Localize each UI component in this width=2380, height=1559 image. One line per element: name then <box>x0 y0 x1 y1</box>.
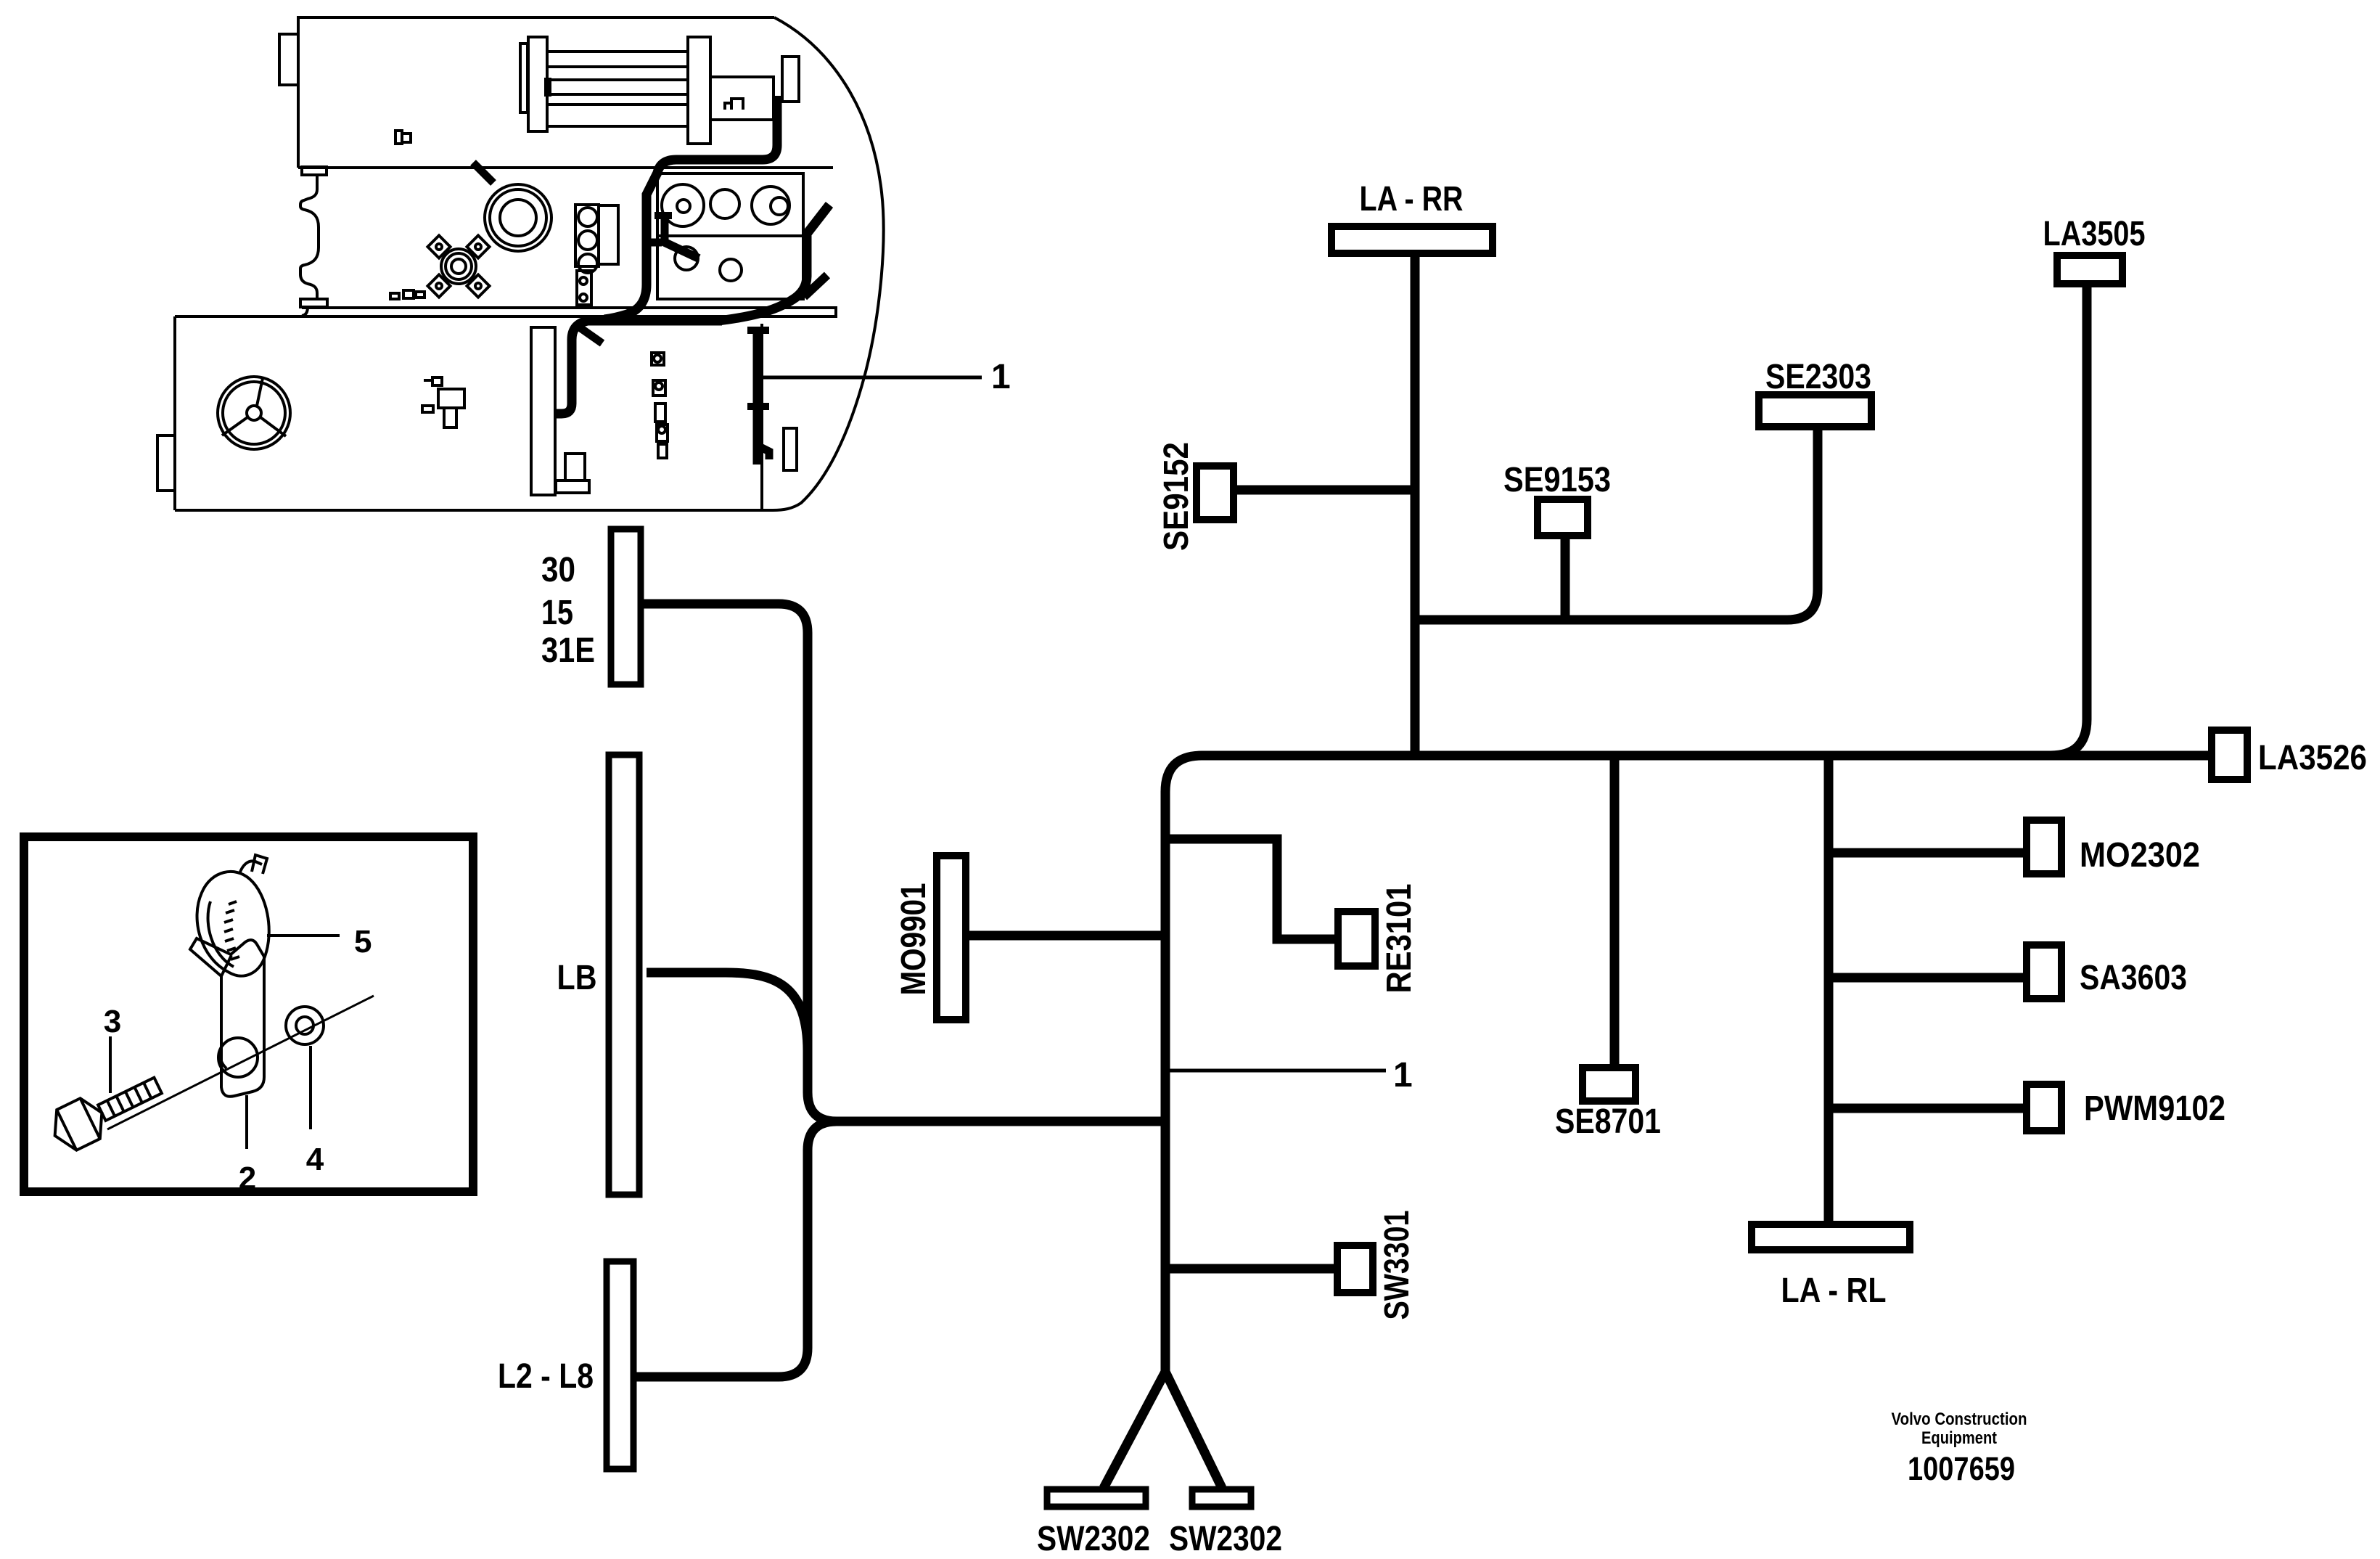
leader line callout 1 (upper) <box>763 376 982 380</box>
wire RE3101 branch <box>1165 839 1336 939</box>
connector LA3505 <box>2057 255 2122 284</box>
svg-text:SE9153: SE9153 <box>1503 461 1611 499</box>
tall console rect <box>531 327 555 495</box>
leader line callout 1 (lower) <box>1170 1069 1386 1073</box>
lower deck left tab <box>157 435 175 491</box>
small step fitting on rod <box>725 99 743 110</box>
wire MO9901 branch <box>968 931 1165 941</box>
cylinder tie rods <box>547 52 688 126</box>
svg-text:LB: LB <box>557 959 597 997</box>
connector L2-L8 bar <box>607 1261 633 1469</box>
lower cluster circle right <box>720 259 742 281</box>
bracket item 2 <box>190 938 264 1097</box>
wire SE9153 drop <box>1561 538 1570 620</box>
leader to 2 <box>245 1095 248 1149</box>
harness branch diagonal <box>804 275 827 297</box>
upper deck bottom edge <box>298 166 833 169</box>
svg-text:RE3101: RE3101 <box>1380 884 1419 994</box>
wire PWM9102 branch <box>1829 1104 2024 1113</box>
svg-text:1: 1 <box>991 358 1011 396</box>
big dash circle inner <box>500 200 536 236</box>
wire LA-RR vertical drop <box>1411 255 1420 752</box>
gauge big left <box>662 184 704 226</box>
small fittings pair <box>390 290 424 299</box>
left bracket plate <box>300 299 327 307</box>
wire LB feed S-curve into vertical <box>647 973 808 1051</box>
clamp tick lower <box>747 403 769 410</box>
wire 30/15/31E feed down to junction and right to trunk <box>642 604 1165 1121</box>
wire fork left leg to SW2302 <box>1104 1372 1165 1488</box>
harness diagonal across lower cluster <box>662 241 699 258</box>
wire SW3301 branch <box>1165 1264 1335 1274</box>
harness vertical with clamps <box>753 328 763 465</box>
X bearing mount <box>427 235 489 297</box>
washer item 4 <box>286 1007 324 1044</box>
harness link to cluster clamp <box>643 239 662 247</box>
lower cluster circle left <box>675 247 698 270</box>
upper deck left tab <box>279 34 298 85</box>
big dash circle outer <box>485 184 551 251</box>
wire fork right leg to SW2302 <box>1165 1372 1222 1488</box>
wire L2-L8 feed from junction down <box>635 1121 837 1377</box>
connector SA3603 <box>2027 945 2061 999</box>
cab outline big curve <box>773 17 884 510</box>
gauge cluster upper box <box>657 173 803 236</box>
cylinder left cap <box>528 37 547 131</box>
clamp tick on cluster edge <box>654 212 672 219</box>
small tab below deck <box>302 167 327 175</box>
harness stub diagonal near hook <box>580 328 602 343</box>
svg-text:SW3301: SW3301 <box>1378 1211 1416 1320</box>
gauge middle <box>710 189 739 218</box>
gauge right <box>752 187 789 224</box>
svg-text:LA - RR: LA - RR <box>1360 180 1464 218</box>
connector LA-RR <box>1331 226 1493 253</box>
svg-text:LA - RL: LA - RL <box>1781 1272 1887 1310</box>
connector LA3526 <box>2212 730 2247 779</box>
clamp tick upper <box>747 327 769 334</box>
cylinder rod collar <box>546 79 550 95</box>
harness stub near lamp connector <box>473 163 493 183</box>
svg-text:2: 2 <box>239 1161 256 1196</box>
small valve fitting upper deck <box>395 131 411 144</box>
cable tie item 5 <box>197 855 269 976</box>
svg-text:SE9152: SE9152 <box>1157 442 1196 551</box>
connector SE2303 <box>1759 395 1871 427</box>
svg-text:LA3505: LA3505 <box>2043 215 2146 253</box>
wire main bus with left end curving down into trunk <box>1165 756 2208 1380</box>
svg-text:SW2302: SW2302 <box>1037 1520 1150 1558</box>
connector MO2302 <box>2027 820 2061 874</box>
svg-text:PWM9102: PWM9102 <box>2084 1089 2225 1128</box>
svg-text:L2 - L8: L2 - L8 <box>498 1357 594 1396</box>
wire SE8701 drop <box>1610 756 1620 1065</box>
svg-text:Equipment: Equipment <box>1921 1428 1997 1448</box>
svg-text:4: 4 <box>306 1142 324 1177</box>
big dash circle middle <box>490 189 546 246</box>
connector 30/15/31E bar <box>611 529 641 684</box>
svg-text:1007659: 1007659 <box>1908 1450 2015 1487</box>
steering wheel rim <box>218 377 290 449</box>
jagged left profile <box>300 175 319 300</box>
svg-text:LA3526: LA3526 <box>2258 739 2367 777</box>
harness cluster drop <box>661 213 669 242</box>
three-lamp connector <box>575 205 618 305</box>
cylinder rod housing <box>710 77 773 120</box>
steering spokes <box>222 378 286 436</box>
harness elbow stub <box>758 446 769 459</box>
leader to 4 <box>309 1046 312 1129</box>
harness rise to cab edge with antenna diagonals <box>718 205 829 321</box>
svg-text:5: 5 <box>354 924 372 959</box>
leader to 5 <box>267 934 340 937</box>
wire right branch vertical to LA-RL <box>1824 756 1834 1222</box>
clamp symbols column <box>652 353 668 458</box>
cylinder right cap <box>688 37 710 144</box>
connector LB bar <box>609 755 639 1195</box>
svg-text:1: 1 <box>1393 1056 1413 1094</box>
steering hub <box>247 406 261 420</box>
connector SE9153 <box>1538 499 1588 536</box>
small rect right of divider <box>784 428 797 470</box>
gauge cluster lower box <box>657 236 803 299</box>
svg-text:SW2302: SW2302 <box>1169 1520 1282 1558</box>
leader to 3 <box>109 1036 112 1093</box>
connector MO9901 <box>937 856 966 1020</box>
svg-text:SE2303: SE2303 <box>1765 358 1871 396</box>
bolt item 3 <box>45 1065 168 1156</box>
connector SE8701 <box>1583 1068 1636 1101</box>
wire SA3603 branch <box>1829 973 2024 983</box>
svg-text:MO9901: MO9901 <box>895 883 933 996</box>
connector SW2302 right <box>1192 1489 1251 1507</box>
wire MO2302 branch <box>1829 848 2024 858</box>
cowl line <box>175 308 836 316</box>
lower deck outline <box>175 316 773 510</box>
svg-text:MO2302: MO2302 <box>2080 836 2200 875</box>
connector SW2302 left <box>1047 1489 1146 1507</box>
cylinder left plate <box>520 44 528 112</box>
upper deck outline <box>298 17 774 168</box>
connector RE3101 <box>1338 912 1375 966</box>
cylinder end block <box>782 57 799 102</box>
svg-text:SA3603: SA3603 <box>2080 959 2187 997</box>
svg-text:3: 3 <box>104 1004 121 1039</box>
wire LA3505 drop curving into bus <box>2024 286 2087 756</box>
svg-text:SE8701: SE8701 <box>1555 1102 1661 1141</box>
connector SE9152 <box>1197 466 1234 520</box>
assembly axis line <box>107 996 374 1129</box>
pedestal knob <box>556 454 589 493</box>
wire sensor line LA-RR to SE2303 curve <box>1415 429 1818 620</box>
deck divider line <box>760 324 763 510</box>
wire SE9152 to LA-RR line <box>1236 486 1415 495</box>
valve cluster center deck <box>422 377 464 427</box>
harness main horizontal in cab <box>554 321 722 414</box>
connector PWM9102 <box>2027 1084 2061 1131</box>
harness thick path from cylinder down through dash <box>604 96 777 319</box>
connector SW3301 <box>1337 1245 1373 1293</box>
svg-text:30: 30 <box>541 551 575 589</box>
connector LA-RL <box>1752 1224 1910 1250</box>
svg-text:15: 15 <box>541 594 573 632</box>
svg-text:Volvo Construction: Volvo Construction <box>1892 1409 2027 1429</box>
inset frame <box>24 837 473 1192</box>
bracket hook curve <box>302 307 308 316</box>
svg-text:31E: 31E <box>541 631 595 670</box>
